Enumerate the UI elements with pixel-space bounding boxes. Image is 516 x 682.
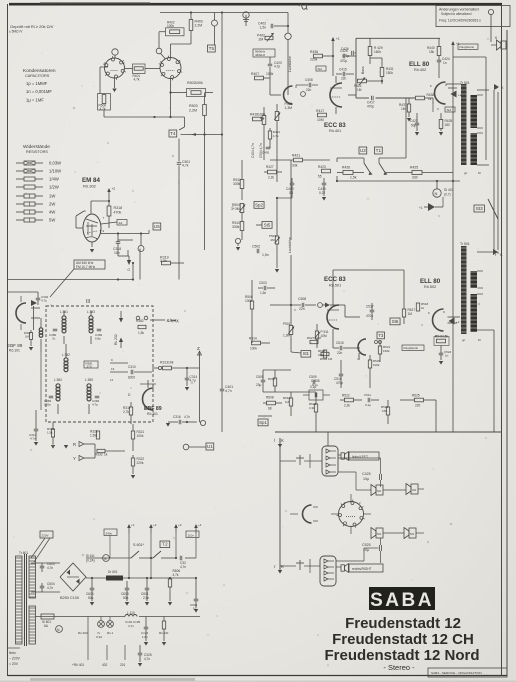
svg-text:1,5M: 1,5M bbox=[90, 434, 97, 438]
svg-text:R522: R522 bbox=[342, 394, 350, 398]
svg-text:6,8p: 6,8p bbox=[95, 336, 101, 340]
svg-text:401: 401 bbox=[412, 488, 417, 492]
resistor R500 4,7k boxed vertical bbox=[98, 94, 111, 111]
svg-text:(0,2A): (0,2A) bbox=[86, 558, 95, 562]
svg-text:X: X bbox=[176, 319, 179, 324]
capacitor C435 0,22 bbox=[322, 182, 327, 184]
svg-text:gn: gn bbox=[464, 171, 468, 175]
svg-text:460kHz: 460kHz bbox=[255, 53, 266, 57]
speaker icon at rechts label bbox=[341, 565, 344, 571]
resistor R418 100k bbox=[253, 117, 262, 121]
wire EBF89-II top bbox=[147, 380, 149, 388]
svg-text:1W: 1W bbox=[49, 194, 55, 199]
svg-text:R332: R332 bbox=[95, 453, 103, 457]
svg-text:C316: C316 bbox=[173, 415, 181, 419]
plug T symbol right connector bbox=[299, 560, 301, 570]
coil small left x41 bbox=[39, 328, 43, 332]
small box St2 bbox=[316, 66, 326, 71]
svg-text:1k: 1k bbox=[421, 306, 425, 310]
svg-text:150k: 150k bbox=[383, 349, 390, 353]
svg-text:160k: 160k bbox=[374, 50, 381, 54]
svg-text:Si 401: Si 401 bbox=[444, 188, 454, 192]
bridge rectifier B250C100 diamond bbox=[60, 563, 86, 591]
svg-text:330k: 330k bbox=[232, 225, 240, 229]
svg-text:Rö.502: Rö.502 bbox=[424, 285, 436, 289]
svg-text:110v: 110v bbox=[188, 533, 195, 537]
terminal box St6 bbox=[390, 318, 400, 325]
svg-text:2,2k: 2,2k bbox=[344, 404, 350, 408]
svg-text:68: 68 bbox=[268, 407, 272, 411]
svg-text:R436: R436 bbox=[310, 50, 318, 54]
svg-text:RL 232: RL 232 bbox=[114, 334, 118, 345]
potentiometer P501 1,3M bbox=[289, 326, 293, 335]
border frame left bbox=[7, 4, 9, 676]
resistor R322 220k vertical bbox=[131, 458, 134, 466]
svg-text:22n: 22n bbox=[337, 351, 343, 355]
capacitor C604 4,7n bbox=[40, 585, 45, 587]
scan noise specks bbox=[169, 107, 171, 109]
resistor R510 330k vertical bbox=[240, 222, 244, 231]
svg-text:T5: T5 bbox=[209, 46, 215, 51]
wire x270 bus into channel2 bbox=[270, 304, 280, 306]
potentiometer P421 1,3M bbox=[275, 112, 279, 121]
capacitor C501 4,7k bbox=[177, 162, 182, 164]
svg-text:4,7n: 4,7n bbox=[180, 565, 186, 569]
terminal box U5 bbox=[153, 223, 161, 230]
wire x41 into IF box bbox=[40, 352, 42, 410]
svg-text:220p: 220p bbox=[44, 402, 51, 406]
wire drops mains to dc bus bbox=[150, 558, 152, 578]
svg-text:N: N bbox=[435, 191, 438, 196]
capacitor C314 4,7u bbox=[185, 377, 190, 379]
capacitor C380 7p bbox=[53, 328, 58, 330]
terminal box U1 bbox=[206, 443, 214, 450]
svg-text:470k: 470k bbox=[114, 210, 122, 214]
ground pair under ELL80-I bbox=[415, 132, 419, 136]
svg-text:220V: 220V bbox=[42, 533, 49, 537]
svg-text:C517: C517 bbox=[366, 305, 374, 309]
resistor R502 100k boxed bbox=[187, 89, 206, 97]
svg-text:L 384: L 384 bbox=[54, 378, 62, 382]
voltage box 110v bbox=[186, 531, 199, 538]
svg-text:0,22: 0,22 bbox=[319, 191, 325, 195]
svg-text:100k: 100k bbox=[245, 299, 252, 303]
wire T4 to column with arrow bbox=[181, 134, 223, 136]
triode half V-tone bbox=[358, 339, 366, 355]
resistor R425 330 bbox=[412, 171, 422, 175]
speaker left woofer 601 bbox=[376, 485, 383, 495]
wire sp1 leads bbox=[258, 415, 272, 417]
wire speaker panel left drop bbox=[279, 438, 281, 570]
svg-text:50µ: 50µ bbox=[88, 596, 94, 600]
speaker drive arrow at ELL80-II bbox=[449, 318, 455, 325]
svg-text:FM 10,7 MHz: FM 10,7 MHz bbox=[76, 265, 96, 269]
antenna jack circle bbox=[212, 20, 218, 26]
capacitor C32 4,7n series bbox=[179, 556, 181, 561]
svg-text:St1: St1 bbox=[303, 351, 310, 356]
svg-text:2,2k: 2,2k bbox=[268, 176, 274, 180]
capacitor C515 22n bbox=[339, 346, 341, 351]
svg-text:4,7n: 4,7n bbox=[47, 566, 53, 570]
svg-text:St5: St5 bbox=[264, 222, 271, 227]
wire V1 left pin down to R500 bbox=[100, 66, 108, 68]
svg-text:4,7n: 4,7n bbox=[184, 415, 190, 419]
wire x133 drop bbox=[132, 263, 134, 280]
terminal box T2 power bbox=[160, 541, 170, 548]
tube EM84 envelope (oval) bbox=[83, 214, 101, 242]
potentiometer P403 1M bbox=[358, 79, 367, 83]
tube ECC83-I internals bbox=[330, 87, 342, 89]
resistor R302 small vertical bbox=[30, 333, 33, 340]
wire connector to rechts label bbox=[336, 566, 341, 568]
svg-text:R427: R427 bbox=[266, 165, 274, 169]
svg-text:3,3k: 3,3k bbox=[309, 406, 315, 410]
svg-text:2,2M: 2,2M bbox=[195, 23, 203, 27]
resistor R531 150k vertical bbox=[378, 346, 381, 354]
svg-text:10n: 10n bbox=[114, 251, 120, 255]
triode half V3a (ECC83-a) bbox=[284, 86, 293, 104]
wire cathode bus y392 bbox=[263, 391, 316, 393]
power transformer core bbox=[24, 554, 26, 646]
resistor R506 100k vertical bbox=[250, 301, 253, 309]
bridge diodes inside bbox=[67, 570, 71, 576]
svg-text:C425: C425 bbox=[362, 472, 371, 476]
wire ELL80-II anode to T2 bbox=[448, 316, 461, 318]
tube ELL80-II envelope bbox=[433, 309, 444, 331]
resistor R440 15k vertical bbox=[437, 47, 441, 56]
svg-text:470µ: 470µ bbox=[340, 59, 347, 63]
svg-text:St6: St6 bbox=[392, 319, 399, 324]
capacitor C405 vertical pair bbox=[266, 146, 271, 148]
resistor R382 1,5k bbox=[138, 325, 146, 328]
svg-text:Netz:: Netz: bbox=[9, 651, 17, 655]
capacitor C603 4,7n bbox=[40, 565, 45, 567]
pilot lamp 2 bbox=[107, 621, 114, 628]
wire x291 volume column top bbox=[290, 160, 292, 240]
capacitor C383 220p bbox=[49, 395, 54, 397]
svg-text:10µ: 10µ bbox=[363, 477, 369, 481]
resistor R525 220 bbox=[415, 398, 424, 402]
wire V2 top to R403 bbox=[170, 44, 172, 58]
svg-text:Rö.401: Rö.401 bbox=[329, 129, 341, 133]
legend resistor row 1/4W bbox=[16, 178, 24, 180]
wire right speaker feed pair bbox=[493, 90, 495, 219]
resistor R438 1k in line bbox=[416, 96, 425, 100]
svg-text:50µ: 50µ bbox=[123, 596, 129, 600]
svg-text:330k: 330k bbox=[233, 182, 241, 186]
wire bus y370 small bbox=[263, 369, 291, 371]
svg-text:S-601*: S-601* bbox=[133, 543, 145, 547]
capacitor C316 4,7n bbox=[178, 420, 180, 425]
capacitor C382 6,8p bbox=[97, 328, 102, 330]
svg-text:+2: +2 bbox=[112, 187, 116, 191]
svg-text:4,7p: 4,7p bbox=[41, 299, 47, 303]
svg-text:5W: 5W bbox=[49, 218, 55, 223]
fuse Si601 6A bbox=[41, 614, 54, 619]
svg-text:C404 4,7n: C404 4,7n bbox=[251, 143, 255, 158]
legend resistor row 2W bbox=[16, 203, 24, 205]
border frame bottom bbox=[8, 675, 508, 677]
potentiometer P504 3+3M bbox=[240, 204, 244, 213]
resistor R431 150k vertical bbox=[380, 68, 384, 77]
supply arrow +2 above R318 bbox=[108, 191, 110, 197]
svg-text:1,8n: 1,8n bbox=[142, 635, 148, 639]
heater drops to other tubes bbox=[87, 617, 89, 661]
wire long horizontal y279 bbox=[8, 279, 134, 281]
speaker right woofer row2 bbox=[376, 528, 383, 538]
wire right vertical x486 bbox=[485, 57, 487, 160]
svg-text:Rö.302: Rö.302 bbox=[78, 631, 88, 635]
svg-text:SABA - SERVICE - ORGANISATION: SABA - SERVICE - ORGANISATION bbox=[431, 671, 482, 675]
svg-text:Rö.402: Rö.402 bbox=[414, 68, 426, 72]
small box Klangblende bbox=[458, 44, 478, 49]
svg-text:2M: 2M bbox=[271, 238, 276, 242]
resistor R381 270 bbox=[84, 361, 98, 368]
filter cap C601 2,5n bbox=[145, 587, 150, 589]
svg-text:1n: 1n bbox=[445, 354, 449, 358]
svg-text:Freudenstadt 12 Nord: Freudenstadt 12 Nord bbox=[324, 647, 479, 664]
speaker output icon top right bbox=[501, 41, 506, 49]
speaker arrow +1 mid bbox=[428, 203, 435, 211]
wire mains entry bbox=[8, 647, 21, 649]
svg-text:C508: C508 bbox=[298, 297, 306, 301]
ground row under IF bbox=[34, 442, 38, 446]
IF can III dashed outline bbox=[46, 306, 153, 422]
capacitor C384 4,7p bbox=[95, 395, 100, 397]
potentiometer P511 10M vertical bbox=[315, 331, 318, 339]
scan shadow bottom-left bbox=[30, 678, 195, 681]
svg-text:11: 11 bbox=[110, 378, 113, 382]
node circle on volume column bbox=[285, 33, 291, 39]
junction circle at 203/422 bbox=[200, 420, 205, 425]
capacitor C524 1n bbox=[439, 352, 444, 354]
svg-text:220k: 220k bbox=[310, 58, 318, 62]
svg-text:4,7k: 4,7k bbox=[100, 107, 106, 111]
svg-text:180: 180 bbox=[445, 123, 451, 127]
capacitor C402 1,5n bbox=[270, 24, 272, 29]
svg-text:100k: 100k bbox=[373, 363, 380, 367]
wire connector circle stems bbox=[350, 494, 352, 502]
svg-text:501: 501 bbox=[410, 532, 415, 536]
svg-text:Tr 501: Tr 501 bbox=[460, 242, 470, 246]
ground arrow at r K bbox=[278, 570, 282, 574]
svg-text:330: 330 bbox=[412, 176, 418, 180]
big connector circle bbox=[339, 502, 364, 527]
resistor R413 1k vertical bbox=[268, 131, 271, 139]
border frame right inner bbox=[501, 5, 503, 676]
wire top bus bbox=[160, 12, 288, 14]
box St4 bbox=[445, 107, 455, 112]
ground mid bbox=[166, 423, 170, 427]
resistor R521b 3,3k vertical bbox=[314, 404, 317, 412]
svg-text:Y: Y bbox=[73, 456, 76, 461]
diode ground arrow under C318 bbox=[128, 256, 130, 260]
svg-text:7p: 7p bbox=[52, 336, 56, 340]
voltage box 240v bbox=[104, 529, 117, 536]
svg-text:150k: 150k bbox=[386, 71, 393, 75]
svg-text:links/LEFT: links/LEFT bbox=[352, 455, 368, 459]
capacitor C502 1,5n bbox=[256, 249, 258, 254]
svg-text:220: 220 bbox=[415, 404, 421, 408]
capacitor C417 470p series in bottom edge bbox=[356, 97, 369, 99]
svg-text:1,5n: 1,5n bbox=[260, 291, 266, 295]
svg-text:Bass: Bass bbox=[357, 353, 361, 360]
output transformer T1 secondary upper (dark bar) bbox=[471, 95, 478, 128]
resistor R527 10M bbox=[310, 340, 318, 343]
svg-text:Rö.101: Rö.101 bbox=[9, 349, 20, 353]
svg-text:SABA: SABA bbox=[370, 590, 434, 611]
capacitor C401 4,7n diagonal bbox=[220, 388, 225, 390]
output transformer T2 primary (dark bar) bbox=[461, 246, 467, 334]
svg-text:R418: R418 bbox=[250, 113, 258, 117]
svg-text:1n: 1n bbox=[443, 61, 447, 65]
wire between row2 speakers bbox=[383, 532, 404, 534]
svg-text:T1: T1 bbox=[376, 148, 382, 153]
diode arrow at 327/305 bbox=[325, 303, 330, 308]
plug T symbol left connector bbox=[299, 455, 301, 465]
capacitor C313 under bbox=[34, 428, 39, 430]
svg-text:100k: 100k bbox=[137, 434, 144, 438]
resistor R504 1M bbox=[321, 352, 329, 355]
output transformer T1 secondary lower (dark bar) bbox=[471, 133, 478, 165]
ground below node bbox=[236, 247, 240, 251]
svg-text:0,1µ: 0,1µ bbox=[312, 383, 318, 387]
svg-text:150: 150 bbox=[382, 409, 387, 413]
svg-text:33k: 33k bbox=[292, 164, 298, 168]
wire EM84 grid left bbox=[75, 216, 77, 228]
resistor R321 1,5M vertical bbox=[96, 431, 99, 439]
svg-text:4,7n: 4,7n bbox=[128, 624, 134, 628]
mains bus y558 bbox=[86, 557, 131, 559]
svg-text:55: 55 bbox=[318, 175, 322, 179]
svg-text:9di: 9di bbox=[119, 221, 123, 225]
SABA logo block bbox=[369, 587, 435, 610]
terminal box T5 bbox=[208, 45, 216, 52]
svg-text:Freq: 12/OCH/DN/260263 s: Freq: 12/OCH/DN/260263 s bbox=[439, 19, 481, 23]
resistor R508 68 bbox=[267, 401, 276, 405]
speaker icon at links label bbox=[341, 453, 344, 459]
terminal box U2 bbox=[359, 147, 367, 154]
svg-text:Klangblende: Klangblende bbox=[404, 346, 419, 350]
output transformer T2 terminals bbox=[477, 251, 494, 253]
resistor R417 10M bbox=[318, 113, 327, 117]
svg-text:C503: C503 bbox=[259, 281, 267, 285]
wire y279 extension dots bbox=[132, 278, 134, 280]
wire right vertical x494 bbox=[493, 219, 495, 246]
svg-text:Geprüft mit Ri ≥ 20k Ω/V: Geprüft mit Ri ≥ 20k Ω/V bbox=[10, 24, 54, 29]
terminal box Sp1 bbox=[258, 419, 268, 426]
tube EBF89-I envelope (left edge) bbox=[16, 303, 26, 323]
svg-text:ELL 80: ELL 80 bbox=[409, 61, 430, 68]
svg-text:10M: 10M bbox=[317, 118, 324, 122]
svg-text:4,7k: 4,7k bbox=[134, 77, 140, 81]
legend resistor row 1/10W bbox=[16, 170, 24, 172]
tube V1 EC92 top-cap bbox=[112, 49, 118, 55]
top-right terminal circle bbox=[488, 9, 493, 14]
svg-text:1,5k: 1,5k bbox=[350, 176, 357, 180]
wire bus y181 bbox=[337, 180, 460, 182]
wire between row1 speakers bbox=[383, 489, 406, 491]
terminal box St5 bbox=[262, 222, 272, 229]
svg-text:B250 C100: B250 C100 bbox=[60, 596, 79, 600]
capacitor C503 1,5n bbox=[263, 286, 265, 291]
output transformer T2 secondary lower (dark bar) bbox=[471, 294, 478, 332]
svg-text:≥ 5MΩ /V: ≥ 5MΩ /V bbox=[9, 30, 23, 34]
svg-text:R514: R514 bbox=[249, 337, 257, 341]
terminal box St3 bbox=[474, 205, 484, 212]
svg-text:EBF 89: EBF 89 bbox=[7, 343, 23, 348]
svg-text:1/4W: 1/4W bbox=[49, 177, 59, 182]
svg-text:2M: 2M bbox=[259, 38, 264, 42]
wire vertical below T4 bbox=[178, 139, 180, 162]
resistor R317 2,7k vertical bbox=[129, 407, 132, 415]
svg-text:+3: +3 bbox=[178, 523, 182, 527]
svg-text:100k: 100k bbox=[250, 347, 257, 351]
svg-text:T.2: T.2 bbox=[162, 542, 168, 547]
resistor R437 1M vertical bbox=[407, 104, 410, 112]
svg-text:601: 601 bbox=[377, 489, 382, 493]
svg-text:rechts/RIGHT: rechts/RIGHT bbox=[352, 567, 372, 571]
wire V1 cathode ground bbox=[114, 78, 116, 88]
svg-text:St2: St2 bbox=[318, 67, 323, 71]
svg-text:= 20V: = 20V bbox=[9, 662, 19, 666]
svg-text:T3: T3 bbox=[378, 333, 384, 338]
svg-text:C502: C502 bbox=[252, 245, 260, 249]
power transformer secondary winding upper bbox=[29, 556, 36, 598]
svg-text:4,7p: 4,7p bbox=[92, 402, 98, 406]
svg-text:K: K bbox=[281, 438, 284, 443]
label box rechts/RIGHT bbox=[349, 564, 383, 572]
svg-text:gn: gn bbox=[462, 338, 466, 342]
svg-text:Sp1: Sp1 bbox=[259, 420, 267, 425]
fuse circle N heater bbox=[56, 626, 63, 633]
potentiometer P402 2M bbox=[265, 36, 273, 39]
wire bus y158 from tone box bbox=[405, 98, 407, 158]
capacitor C423 50p bbox=[415, 122, 420, 124]
svg-text:50p: 50p bbox=[411, 123, 417, 127]
speaker connector block left bbox=[322, 446, 338, 476]
svg-text:St3: St3 bbox=[476, 206, 483, 211]
svg-text:R525: R525 bbox=[412, 394, 420, 398]
resistor R518 6,8 vertical bbox=[289, 398, 292, 406]
half tube aux input bbox=[303, 505, 312, 523]
capacitor C509 0,1u bbox=[312, 380, 314, 385]
tube EBF89-II envelope bbox=[143, 388, 154, 410]
svg-text:Freudenstadt 12: Freudenstadt 12 bbox=[345, 615, 461, 632]
svg-text:R421: R421 bbox=[292, 154, 300, 158]
capacitor C511 0,1u pair bbox=[367, 398, 369, 403]
svg-text:(0,7): (0,7) bbox=[444, 192, 451, 196]
resistor R429 160k vertical bbox=[368, 47, 372, 56]
capacitor C505 23u bbox=[261, 379, 266, 381]
svg-text:4,7k: 4,7k bbox=[182, 164, 189, 168]
svg-text:100k: 100k bbox=[167, 24, 174, 28]
info box: Aenderungen vorbehalten bbox=[436, 6, 510, 27]
ground under V1 bbox=[112, 89, 116, 93]
diode RL232 lower bbox=[120, 342, 122, 348]
output transformer T2 hatching bbox=[460, 247, 478, 249]
output transformer T1 hatching bbox=[460, 85, 478, 87]
output transformer T1 primary (dark bar) bbox=[461, 84, 467, 165]
svg-text:0,03W: 0,03W bbox=[49, 161, 61, 166]
wire x277 down from P421 bbox=[276, 160, 278, 182]
terminal box T4 bbox=[169, 130, 177, 137]
svg-text:St4: St4 bbox=[447, 108, 452, 112]
wire ELL80-I anode to transformer bbox=[446, 83, 461, 85]
capacitor C426 470u bbox=[342, 54, 344, 59]
tiny box st at EM84 bbox=[117, 220, 127, 226]
wire R500 bottom to bus y117 bbox=[103, 110, 105, 117]
